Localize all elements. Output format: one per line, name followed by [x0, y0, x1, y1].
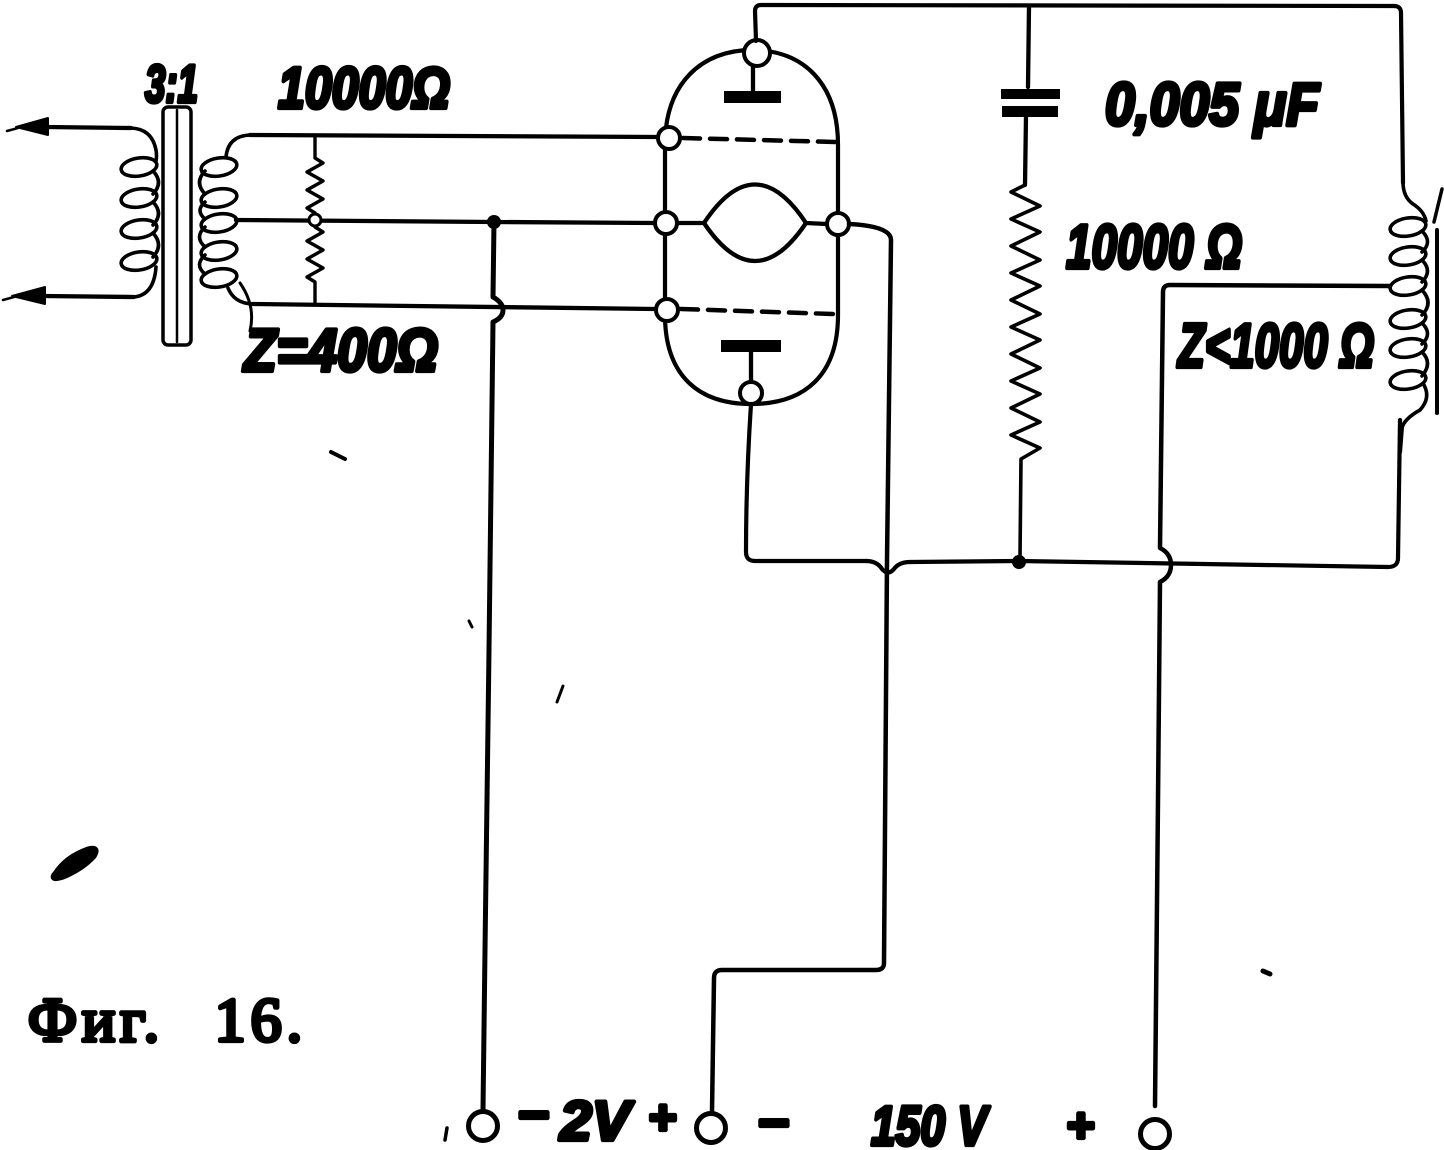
svg-text:3:1: 3:1	[145, 55, 198, 114]
tube V1 grid (lens)	[677, 185, 827, 262]
wire speaker bottom down to bus	[1400, 426, 1402, 452]
node: junction dot resistor to bus	[1012, 555, 1026, 569]
terminal -2V minus	[469, 1112, 498, 1141]
terminal -2V plus / 150V minus	[697, 1114, 726, 1143]
transformer T1 primary winding	[120, 128, 159, 297]
tube V1 pin top	[744, 40, 770, 66]
ink speck comma	[445, 1128, 447, 1140]
wire secondary top to tube	[250, 135, 656, 137]
svg-text:Z<1000 Ω: Z<1000 Ω	[1177, 312, 1374, 381]
ink smudge	[54, 849, 95, 877]
svg-text:+: +	[1066, 1100, 1094, 1150]
ink speck dot	[1263, 971, 1270, 974]
output wire top with arrow	[7, 118, 131, 135]
ink speck dot 2	[469, 621, 472, 627]
ink speck slash	[557, 686, 563, 702]
svg-text:10000 Ω: 10000 Ω	[1066, 213, 1242, 282]
tube V1 internal dashed line upper	[683, 138, 835, 142]
svg-text:Фиг. 16.: Фиг. 16.	[28, 987, 307, 1055]
svg-text:−: −	[517, 1085, 549, 1145]
tube V1 cathode bar	[721, 340, 781, 382]
svg-text:2V: 2V	[559, 1089, 635, 1150]
potentiometer R1 10000 ohm	[307, 137, 323, 304]
tube V1 pin left middle (grid)	[655, 212, 677, 234]
wire cathode down to bus	[746, 404, 866, 561]
transformer T1 secondary winding	[200, 135, 253, 304]
resistor R2 10000 ohm zigzag	[1011, 185, 1040, 557]
wire speaker tap to plus terminal (with crossover hop)	[1155, 285, 1390, 1106]
wire tap down to -2V terminal (with crossover hop)	[483, 222, 503, 1110]
terminal 150V plus	[1141, 1120, 1170, 1149]
capacitor C1 plates	[1001, 89, 1060, 99]
output wire bottom with arrow	[3, 287, 134, 304]
svg-text:+: +	[648, 1092, 676, 1145]
tube V1 internal dashed line lower	[681, 309, 833, 314]
bus crossover dip at grid-return wire	[866, 561, 910, 573]
tube V1 pin right (grid return)	[827, 213, 849, 235]
wire secondary tap to grid	[236, 220, 655, 223]
svg-text:150 V: 150 V	[871, 1094, 991, 1150]
svg-text:−: −	[757, 1093, 789, 1150]
wire secondary bottom to tube	[252, 304, 655, 309]
svg-text:Z=400Ω: Z=400Ω	[242, 317, 438, 384]
tube V1 pin left lower	[656, 299, 678, 321]
speaker winding L1	[1389, 182, 1428, 428]
node: tap junction dot	[487, 215, 501, 229]
wire grid return down to -150V minus terminal	[712, 224, 891, 1112]
capacitor C1 lead upper	[1028, 6, 1029, 87]
wire plate top bus	[755, 5, 1403, 183]
tube V1 plate bar	[724, 64, 781, 103]
capacitor C1 lead lower	[1025, 116, 1026, 185]
tube V1 envelope	[665, 50, 838, 404]
label Z=400 ohm with leader	[240, 283, 252, 331]
tube V1 pin bottom (cathode)	[740, 382, 762, 404]
wire bus bottom right	[910, 420, 1400, 567]
svg-text:0,005 μF: 0,005 μF	[1105, 71, 1320, 138]
tube V1 pin left upper	[658, 127, 680, 149]
transformer T1 core	[163, 107, 191, 345]
svg-text:10000Ω: 10000Ω	[278, 56, 450, 121]
ink speck tick	[331, 452, 345, 459]
speaker core line	[1435, 230, 1439, 413]
